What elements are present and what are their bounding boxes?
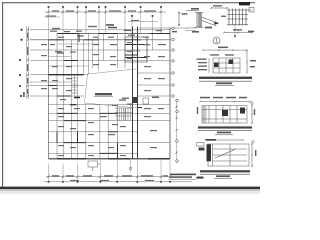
top dimension line 1 bbox=[44, 11, 166, 13]
main caption / notes block bbox=[170, 174, 204, 179]
extra faint row above wedge bbox=[49, 65, 88, 67]
top dim ticks bbox=[47, 11, 162, 13]
upper mid box detail bbox=[125, 37, 147, 62]
dark beam segments upper plan bbox=[49, 34, 171, 98]
room label bbox=[95, 93, 112, 95]
dark beam segments lower plan bbox=[57, 100, 170, 159]
left dim text smudges (vertical) bbox=[23, 33, 28, 98]
circled 1 bbox=[213, 37, 220, 44]
right edge hollow circles bbox=[172, 27, 179, 162]
left dim ticks bbox=[27, 29, 29, 98]
stair B treads (lower, horizontal run) bbox=[115, 108, 133, 121]
bottom page edge band bbox=[0, 187, 260, 190]
dark landing left of lower plan bbox=[70, 104, 77, 106]
left grid bullets bbox=[19, 29, 23, 97]
bottom dim text smudges bbox=[52, 175, 168, 181]
plan vertical column lines bbox=[49, 28, 171, 159]
top grid bullets bbox=[48, 6, 163, 17]
stair dark block bbox=[133, 97, 138, 103]
plan horizontal grid rows lower bbox=[49, 105, 171, 159]
border frame top bbox=[2, 2, 255, 4]
top dim text smudges bbox=[46, 10, 156, 21]
bottom extension lines bbox=[49, 160, 171, 182]
border frame left bbox=[2, 3, 4, 187]
D4: bar detail bbox=[199, 101, 253, 125]
bottom dim ticks bbox=[47, 176, 171, 178]
bottom dim lines bbox=[46, 176, 190, 178]
stair walls dark vertical pair bbox=[133, 27, 138, 159]
svg-text:1: 1 bbox=[215, 39, 218, 45]
vertical grid extension lines from top bbox=[49, 7, 162, 40]
bottom dim bullets bbox=[48, 181, 171, 183]
left dim vertical lines bbox=[27, 26, 29, 99]
plan text smudges bbox=[41, 24, 166, 156]
D1: top-right joint detail bbox=[195, 7, 228, 27]
D1 bottom dim bbox=[223, 32, 253, 34]
D3 caption bbox=[199, 77, 252, 79]
hanging box below plan bbox=[88, 161, 100, 171]
right side vertical dim (lower plan) bbox=[176, 100, 178, 163]
top right plan stub bbox=[139, 27, 196, 30]
D5 caption bbox=[200, 170, 250, 172]
D1 hatch block bbox=[227, 9, 252, 26]
plan horizontal grid rows upper bbox=[30, 30, 170, 96]
D3: joint plan fragment detail bbox=[202, 49, 248, 73]
stair A treads (upper, vertical run) bbox=[72, 75, 78, 95]
small box right of stair bbox=[143, 98, 149, 104]
big room glare region boundary lines bbox=[85, 69, 138, 108]
D5: wall section detail bbox=[204, 139, 253, 167]
D1 W dark label bbox=[239, 2, 250, 5]
D1 texts bbox=[205, 5, 254, 32]
D0: small dim with vertical arrows left of D1 bbox=[179, 11, 199, 26]
top dimension line 2 partial bbox=[44, 16, 60, 18]
D4 caption bbox=[198, 126, 252, 128]
